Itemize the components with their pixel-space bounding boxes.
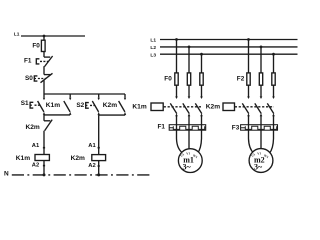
coil K2m	[92, 155, 106, 161]
svg-text:S0: S0	[25, 75, 33, 82]
contactor K2m drive box	[223, 103, 235, 111]
wire group2 bar to coil K2m	[98, 115, 100, 155]
actuator E of S0	[34, 76, 37, 81]
contactor K1m drive box	[151, 103, 163, 111]
terminal A2 K1m	[43, 165, 45, 167]
arrow K1m pole3 top	[200, 97, 203, 100]
wire branch1 pole3	[201, 54, 203, 96]
wire main column from L1 through F0 to F1	[43, 36, 45, 57]
svg-text:K2m: K2m	[103, 102, 117, 109]
junction dots and contact arrowheads	[43, 35, 275, 177]
wire motor M2 mid lead	[260, 130, 262, 151]
fuse F2 pole2	[259, 73, 262, 85]
overload relay F1 wires through	[177, 125, 202, 131]
node dot L2 branch2	[260, 46, 263, 49]
contact S2 NO	[98, 94, 100, 98]
wire branch2 pole3 lower	[273, 116, 275, 125]
wire motor M2 right lead	[269, 130, 273, 153]
svg-text:3~: 3~	[183, 163, 192, 172]
contact K2m pole2 blade	[255, 103, 261, 113]
svg-text:L3: L3	[150, 52, 156, 58]
arrow S2 top	[98, 98, 100, 101]
wire group1 bar to K2m interlock	[43, 115, 45, 121]
svg-text:F1: F1	[24, 57, 32, 64]
motor M2 circle	[249, 149, 273, 173]
svg-text:K2m: K2m	[206, 104, 220, 111]
node dot L1 control	[43, 35, 46, 38]
arrow K2m pole2 bottom	[260, 113, 263, 116]
svg-text:K2m: K2m	[71, 155, 85, 162]
wire coil K1m to N	[43, 161, 45, 175]
svg-text:A1: A1	[32, 143, 40, 149]
fuse F0 pole2	[187, 73, 190, 85]
node dot L3 pole3	[200, 53, 203, 56]
svg-text:N: N	[4, 171, 9, 178]
wire branch1 pole1	[176, 40, 178, 97]
arrow S1 bottom	[43, 112, 45, 115]
arrow K2m pole3 bottom	[272, 113, 275, 116]
contact K2m pole3 blade	[267, 103, 274, 113]
svg-text:K1m: K1m	[132, 103, 146, 110]
wire bottom bar group 2	[99, 114, 125, 116]
svg-text:A2: A2	[32, 162, 39, 168]
node dot L2 pole2	[188, 46, 191, 49]
terminal A1 K2m	[98, 147, 100, 149]
wire coil K2m to N	[98, 161, 100, 175]
contact K2m pole1 blade	[242, 103, 249, 113]
svg-text:F1: F1	[158, 124, 166, 131]
svg-text:F0: F0	[164, 76, 172, 83]
arrow K1m pole1 top	[175, 97, 178, 100]
wire branch2 pole3	[273, 54, 275, 96]
linkage K1m dashed	[164, 106, 202, 108]
fuse F2 pole1	[247, 73, 250, 85]
wire branch2 pole1 lower	[248, 116, 250, 125]
arrow S2 bottom	[98, 112, 100, 115]
contact F1 thermal NC	[44, 56, 50, 58]
contact K1m pole2 blade	[183, 103, 190, 113]
wire motor M1 mid lead	[188, 130, 190, 151]
node dot N-K1m	[43, 173, 46, 176]
svg-text:3~: 3~	[254, 163, 263, 172]
arrow K2m pole2 top	[260, 97, 263, 100]
svg-text:K1m: K1m	[16, 155, 30, 162]
wire top distribution bar	[44, 93, 125, 95]
wire branch1 pole2	[188, 47, 190, 97]
node dot L3 branch2	[272, 53, 275, 56]
node L2 power line	[160, 46, 298, 48]
svg-text:F0: F0	[32, 42, 40, 49]
contact K1m pole1 blade	[170, 103, 177, 113]
wire branch2 pole2	[260, 47, 262, 97]
overload relay F1 box	[169, 125, 206, 131]
svg-text:F3: F3	[232, 125, 240, 132]
wire branch2 pole2 lower	[260, 116, 262, 125]
svg-text:L2: L2	[150, 45, 156, 51]
arrow K1m pole2 bottom	[188, 113, 191, 116]
actuator E of S1	[30, 102, 33, 108]
svg-text:S1: S1	[21, 100, 29, 107]
arrow K1m aux bottom	[69, 112, 71, 115]
wire bottom bar group 1	[44, 114, 70, 116]
arrow K1m pole2 top	[188, 97, 191, 100]
arrow K1m pole1 bottom	[175, 113, 178, 116]
arrow K2m pole3 top	[272, 97, 275, 100]
fuse F0 pole3	[200, 73, 203, 85]
motor M1 circle	[178, 149, 202, 173]
overload relay F3 wires through	[249, 125, 274, 131]
svg-text:K2m: K2m	[26, 124, 40, 131]
linkage K2m dashed	[235, 106, 274, 108]
node L3 power line	[160, 53, 298, 55]
contact K1m NO aux	[69, 94, 71, 98]
arrow K1m aux top	[69, 98, 71, 101]
arrow K2m pole1 top	[247, 97, 250, 100]
terminal A1 K1m	[43, 147, 45, 149]
svg-text:F2: F2	[237, 76, 245, 83]
coil K1m	[35, 155, 49, 161]
arrow S1 top	[43, 98, 45, 101]
wire branch1 pole3 lower	[201, 116, 203, 125]
terminal A2 K2m	[98, 165, 100, 167]
fuse F2 pole3	[272, 73, 275, 85]
overload relay F3 heater elements	[241, 126, 278, 129]
node N line	[12, 174, 153, 176]
svg-text:L1: L1	[150, 38, 156, 44]
wire F1 bottom to S0	[43, 66, 45, 74]
arrow K2m aux bottom	[124, 112, 126, 115]
arrow K2m pole1 bottom	[247, 113, 250, 116]
arrow K1m pole3 bottom	[200, 113, 203, 116]
wire S0 bottom to top bar	[43, 81, 45, 95]
node dot N-K2m	[97, 173, 100, 176]
svg-text:K1m: K1m	[46, 102, 60, 109]
overload relay F1 heater elements	[169, 126, 206, 129]
node dot L1 pole1	[175, 38, 178, 41]
contact S1 NO	[43, 94, 45, 98]
node dot L1 branch2	[247, 38, 250, 41]
wire branch1 pole1 lower	[176, 116, 178, 125]
overload relay F3 box	[241, 125, 278, 131]
svg-text:A1: A1	[88, 143, 96, 149]
wire motor M1 left lead	[177, 130, 184, 153]
fuse F0 pole1	[175, 73, 178, 85]
contact S0 NC pushbutton	[44, 74, 51, 76]
contact K2m NC interlock	[44, 120, 50, 122]
svg-text:S2: S2	[76, 102, 84, 109]
wire branch1 pole2 lower	[188, 116, 190, 125]
svg-text:A2: A2	[88, 163, 95, 169]
contact K2m NO aux	[124, 94, 126, 98]
node L1 control line	[21, 35, 85, 37]
contact K1m pole3 blade	[195, 103, 202, 113]
actuator E of S2	[86, 103, 89, 109]
node L1 power line	[160, 39, 298, 41]
fuse F0 control	[41, 40, 45, 51]
release element F1	[36, 59, 39, 64]
svg-text:L1: L1	[14, 32, 20, 38]
wire motor M2 left lead	[249, 130, 254, 153]
wire K2m interlock to coil K1m	[43, 131, 45, 155]
arrow K2m aux top	[124, 98, 126, 101]
wire branch2 pole1	[248, 40, 250, 97]
wire motor M1 right lead	[197, 130, 201, 153]
